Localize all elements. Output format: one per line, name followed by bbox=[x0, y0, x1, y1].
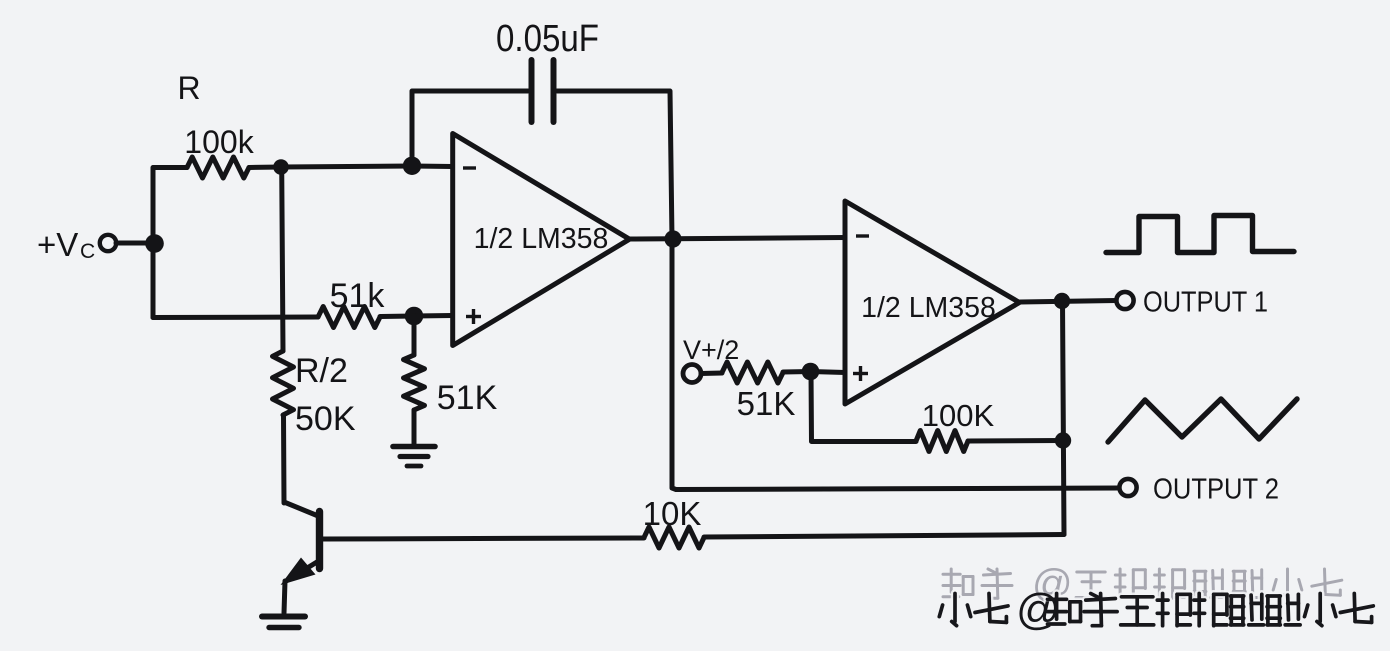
op-amp U1 plus pin bbox=[466, 315, 481, 318]
resistor R/2 50K bbox=[273, 351, 294, 415]
svg-text:+V: +V bbox=[37, 226, 78, 263]
node A junction bbox=[145, 234, 164, 253]
svg-text:@: @ bbox=[1016, 585, 1061, 634]
svg-text:51K: 51K bbox=[737, 385, 796, 422]
svg-text:51K: 51K bbox=[437, 379, 498, 417]
capacitor C1 0.05uF right plate bbox=[551, 60, 557, 122]
svg-text:100k: 100k bbox=[184, 124, 254, 160]
wire +Vc to node A bbox=[116, 241, 156, 246]
wire U2 output to OUTPUT 1 bbox=[1020, 301, 1117, 303]
wire node F to U2 non-inverting input bbox=[811, 372, 845, 373]
transistor Q1 emitter arrow bbox=[281, 558, 316, 586]
wire left rail bbox=[153, 168, 187, 318]
node B junction bbox=[273, 159, 289, 175]
wire to OUTPUT 2 terminal bbox=[676, 488, 1119, 490]
node G junction bbox=[1054, 293, 1070, 309]
resistor R 100k bbox=[187, 157, 249, 178]
ground under Q1 bbox=[262, 614, 305, 620]
terminal OUTPUT 2 bbox=[1119, 479, 1136, 496]
wire Q1 emitter to ground bbox=[284, 581, 285, 613]
op-amp U2 plus pin bbox=[853, 372, 868, 375]
watermark toutiao line bbox=[939, 585, 1373, 634]
svg-text:R/2: R/2 bbox=[295, 352, 348, 390]
node G2 junction bbox=[1055, 432, 1071, 448]
wire node D down to output2 row bbox=[672, 239, 676, 490]
square wave icon bbox=[1106, 216, 1294, 253]
wire node B down to R/2 bbox=[282, 167, 283, 351]
wire 51K to node F bbox=[783, 369, 811, 375]
triangle wave icon bbox=[1108, 399, 1297, 442]
svg-text:OUTPUT 1: OUTPUT 1 bbox=[1143, 287, 1268, 319]
watermark zhihu line bbox=[943, 562, 1342, 606]
wire node E down bbox=[412, 316, 417, 355]
wire node E to U1 non-inverting input bbox=[414, 313, 452, 319]
op-amp U1 body bbox=[453, 134, 630, 346]
resistor 51K input bbox=[722, 362, 783, 383]
wire R/2 to Q1 collector bbox=[281, 415, 287, 503]
resistor 51k bbox=[318, 307, 380, 328]
svg-text:1/2 LM358: 1/2 LM358 bbox=[861, 292, 996, 324]
op-amp U2 body bbox=[845, 201, 1020, 404]
watermark halo bbox=[939, 594, 1373, 626]
wire 100K to node G2 bbox=[968, 438, 1063, 444]
wire capacitor to U1 output node D bbox=[557, 91, 672, 239]
wire node C up to capacitor bbox=[412, 91, 528, 166]
node E junction bbox=[405, 307, 424, 326]
resistor 51K vertical bbox=[404, 355, 425, 410]
op-amp U1 minus pin bbox=[463, 166, 476, 169]
svg-text:50K: 50K bbox=[295, 400, 356, 438]
wire U1 output to U2 inverting input bbox=[630, 238, 845, 240]
wire 10K to node H bbox=[704, 535, 1064, 538]
terminal OUTPUT 1 bbox=[1116, 292, 1133, 309]
wire Q1 base to 10K bbox=[322, 538, 644, 539]
node C junction bbox=[403, 157, 421, 175]
wire 51k to node E bbox=[380, 314, 414, 320]
svg-text:51k: 51k bbox=[330, 277, 386, 315]
wire left rail to 51k bbox=[153, 315, 318, 321]
node D junction bbox=[664, 230, 681, 247]
svg-text:0.05uF: 0.05uF bbox=[496, 18, 599, 60]
ground under 51K bbox=[393, 444, 435, 450]
svg-text:1/2 LM358: 1/2 LM358 bbox=[474, 223, 609, 255]
terminal +Vc bbox=[100, 235, 116, 251]
capacitor C1 0.05uF left plate bbox=[529, 60, 535, 122]
wire node B to node C bbox=[281, 166, 412, 167]
wire node H up to node G bbox=[1063, 301, 1065, 535]
svg-text:100K: 100K bbox=[922, 398, 995, 433]
node F junction bbox=[802, 363, 820, 381]
op-amp U2 minus pin bbox=[856, 234, 869, 237]
transistor Q1 collector lead bbox=[284, 502, 317, 516]
terminal V+/2 bbox=[683, 365, 701, 383]
resistor 100K bbox=[916, 431, 968, 452]
svg-text:OUTPUT 2: OUTPUT 2 bbox=[1153, 474, 1279, 506]
wire 51K to ground bbox=[412, 410, 417, 445]
svg-text:C: C bbox=[80, 240, 95, 263]
svg-text:V+/2: V+/2 bbox=[683, 335, 739, 365]
transistor Q1 base bar bbox=[316, 512, 323, 569]
wire V+/2 to 51K bbox=[701, 371, 722, 377]
svg-text:R: R bbox=[177, 70, 200, 106]
wire 100k to node B bbox=[249, 165, 282, 171]
wire node F down to 100K bbox=[811, 372, 916, 442]
transistor Q1 emitter lead bbox=[286, 562, 317, 581]
resistor 10K bbox=[644, 527, 704, 548]
wire node C to U1 inverting input bbox=[412, 164, 452, 170]
